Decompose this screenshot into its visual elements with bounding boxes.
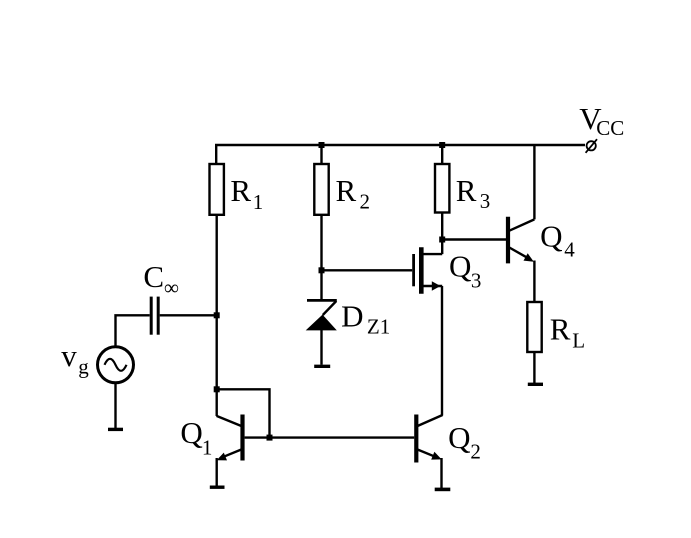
label Q4 <box>540 218 575 261</box>
node base junction <box>267 435 273 441</box>
transistor Q2 <box>416 415 442 489</box>
label Q1 <box>180 415 212 460</box>
wire vg to capacitor <box>116 315 150 346</box>
wire diode connection of Q1 <box>217 389 270 437</box>
wire zener to ground <box>320 330 322 365</box>
svg-text:3: 3 <box>471 268 482 292</box>
wire capacitor to R1 node <box>160 314 217 316</box>
ground vg <box>108 428 123 431</box>
svg-text:Q: Q <box>540 218 562 253</box>
node cap junction <box>214 312 220 318</box>
node Q4 base junction <box>439 237 445 243</box>
wire R1 bottom to Q1 collector <box>215 215 217 416</box>
svg-text:v: v <box>61 338 77 373</box>
resistor R2 <box>314 164 328 215</box>
ground DZ1 <box>314 365 330 368</box>
svg-text:2: 2 <box>470 440 481 464</box>
svg-text:1: 1 <box>253 190 263 214</box>
node gate junction <box>319 267 325 273</box>
svg-text:Z1: Z1 <box>367 315 390 339</box>
svg-text:D: D <box>341 298 363 333</box>
ground RL <box>528 383 543 386</box>
mosfet Q3 <box>414 247 443 293</box>
wire Q3 source to Q2 collector <box>441 286 443 416</box>
svg-text:L: L <box>572 329 585 353</box>
svg-text:Q: Q <box>180 415 202 450</box>
svg-text:Q: Q <box>448 420 470 455</box>
source vg <box>98 347 134 383</box>
svg-text:CC: CC <box>596 116 624 140</box>
svg-text:R: R <box>230 173 251 208</box>
node Q1 collector junction <box>214 386 220 392</box>
svg-text:4: 4 <box>564 238 575 262</box>
label vg <box>61 338 89 379</box>
label VCC <box>579 101 624 140</box>
label RL <box>550 312 585 353</box>
svg-text:1: 1 <box>202 436 213 460</box>
node top rail R2 <box>319 142 325 148</box>
label DZ1 <box>341 298 390 338</box>
node top rail R3 <box>439 142 445 148</box>
resistor RL <box>527 302 541 352</box>
wire R3 top <box>441 145 443 164</box>
wire R2 bottom to zener <box>320 215 322 299</box>
wire vg bottom <box>114 383 116 428</box>
label C-inf <box>143 259 179 299</box>
svg-text:g: g <box>78 354 89 378</box>
transistor Q1 <box>217 415 243 486</box>
ground Q2 <box>435 488 451 492</box>
svg-text:2: 2 <box>360 190 371 214</box>
resistor R1 <box>210 164 224 215</box>
svg-text:R: R <box>456 173 477 208</box>
label Q3 <box>449 248 481 292</box>
svg-text:R: R <box>550 312 571 347</box>
svg-text:3: 3 <box>480 189 491 213</box>
label R3 <box>456 173 490 213</box>
svg-text:C: C <box>143 259 164 294</box>
wire R3 bottom to Q3 drain <box>441 213 443 255</box>
wire Q4 base <box>442 238 506 240</box>
ground Q1 <box>210 486 225 489</box>
svg-text:∞: ∞ <box>164 275 179 299</box>
wire Q1 base to Q2 base <box>245 436 415 438</box>
zener diode DZ1 <box>306 300 337 330</box>
wire R2 top <box>320 145 322 164</box>
wire VCC top rail <box>216 145 585 164</box>
capacitor C-inf <box>151 297 158 335</box>
label R2 <box>336 173 371 214</box>
terminal VCC <box>586 139 597 153</box>
wire gate of Q3 <box>322 269 413 271</box>
wire RL bottom <box>533 352 535 383</box>
svg-text:Q: Q <box>449 248 471 283</box>
svg-text:R: R <box>336 173 357 208</box>
transistor Q4 <box>508 145 534 301</box>
resistor R3 <box>435 164 449 213</box>
label Q2 <box>448 420 481 464</box>
label R1 <box>230 173 263 214</box>
